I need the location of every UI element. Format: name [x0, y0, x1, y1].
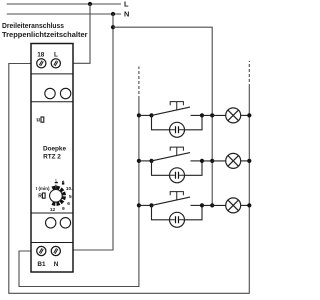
terminal N screw — [51, 246, 60, 255]
svg-text:9: 9 — [62, 206, 65, 212]
svg-text:Treppenlichtzeitschalter: Treppenlichtzeitschalter — [2, 30, 88, 39]
svg-text:N: N — [54, 261, 59, 268]
node dot bus S3 — [137, 203, 141, 207]
terminal B1 screw — [37, 246, 46, 255]
wire S3 to lamp — [202, 204, 226, 206]
wire push-button bus dashed continuation — [138, 67, 140, 100]
svg-text:Doepke: Doepke — [43, 146, 67, 153]
switch S2 blade — [152, 153, 191, 161]
dial knob — [50, 190, 63, 203]
switch S3 fixed contact — [191, 204, 203, 206]
svg-text:5: 5 — [69, 194, 72, 200]
glow lamp E1 — [170, 122, 185, 137]
mounting hole top right — [60, 88, 70, 98]
wire lamp return bus dashed continuation — [248, 61, 250, 87]
node dot S3 branch — [149, 203, 153, 207]
push-button S1 row — [137, 102, 252, 138]
dial time scale wedges — [51, 186, 66, 206]
glow lamp E3 branch — [152, 205, 203, 219]
lamp H2 — [226, 153, 241, 168]
switch S2 actuator — [170, 147, 183, 155]
switch S1 blade — [152, 107, 191, 115]
node dot S2 right — [200, 159, 204, 163]
terminal L screw — [51, 59, 60, 68]
wire H1 to return bus — [241, 114, 250, 116]
svg-text:12: 12 — [50, 207, 56, 213]
glow lamp E1 branch — [152, 115, 203, 129]
switch S3 blade — [152, 197, 191, 205]
svg-text:Dreileiteranschluss: Dreileiteranschluss — [2, 21, 64, 30]
svg-text:L: L — [124, 0, 129, 9]
node dot H1 return — [247, 113, 251, 117]
svg-text:N: N — [124, 10, 129, 19]
mounting hole bottom left — [46, 218, 56, 228]
svg-text:L: L — [54, 51, 58, 58]
node dot H2 return — [247, 159, 251, 163]
svg-text:R: R — [38, 194, 42, 200]
wire N drop to timer N terminal — [60, 14, 113, 250]
wire S3 left — [139, 204, 152, 206]
push-button S3 row — [137, 192, 252, 228]
mounting hole top left — [45, 88, 55, 98]
node junction on L — [88, 2, 92, 6]
node dot S1 branch — [149, 113, 153, 117]
node dot S3 right — [200, 203, 204, 207]
wire N supply line — [7, 13, 121, 15]
wire H3 to return bus — [241, 204, 250, 206]
wire S2 left — [139, 160, 152, 162]
wire S1 left — [139, 114, 152, 116]
dial pointer tick top — [55, 185, 57, 189]
glow lamp E2 branch — [152, 161, 203, 175]
svg-text:10.: 10. — [66, 186, 73, 192]
node dot S1 lamp bus — [210, 113, 214, 117]
wire S1 to lamp — [202, 114, 226, 116]
svg-text:B1: B1 — [37, 261, 46, 268]
node dot bus S2 — [137, 159, 141, 163]
svg-text:18: 18 — [37, 51, 45, 58]
dial top glyph bell — [55, 179, 58, 183]
timer section divider bottom — [31, 242, 73, 244]
lamp H3 — [226, 198, 241, 213]
wire H2 to return bus — [241, 160, 250, 162]
node dot H3 return — [247, 203, 251, 207]
node dot S3 lamp bus — [210, 203, 214, 207]
dial top glyph lock — [62, 181, 64, 185]
switch S1 fixed contact — [191, 114, 203, 116]
node junction on N — [111, 12, 115, 16]
svg-text:RTZ 2: RTZ 2 — [43, 154, 61, 161]
terminal 18 screw — [37, 59, 46, 68]
wire L supply line — [7, 3, 121, 5]
wire from terminal B1 to push-button bus — [19, 99, 139, 287]
timer section divider lower — [31, 212, 73, 214]
glow lamp E3 — [170, 212, 185, 227]
push-button S2 row — [137, 147, 252, 183]
mounting hole bottom right — [60, 218, 70, 228]
wire from L line to timer L terminal — [73, 4, 90, 63]
timer U1 Doepke RTZ 2 body — [31, 44, 73, 273]
switch S3 actuator — [170, 192, 183, 200]
node dot bus S1 — [137, 113, 141, 117]
timer section divider top — [31, 73, 73, 75]
node dot S1 right — [200, 113, 204, 117]
svg-text:t (min): t (min) — [36, 186, 50, 191]
wire N branch to lamp bus — [113, 27, 212, 205]
svg-text:u: u — [36, 118, 40, 124]
timer section divider upper — [31, 101, 73, 103]
glow lamp E2 — [170, 168, 185, 183]
wire from terminal 18 around bottom to lamp return bus — [9, 64, 250, 294]
node dot S2 branch — [149, 159, 153, 163]
node junction N branch — [111, 25, 115, 29]
switch S1 actuator — [170, 102, 183, 110]
svg-text:6: 6 — [67, 201, 70, 207]
lamp H1 — [226, 108, 241, 123]
wire S2 to lamp — [202, 160, 226, 162]
node dot S2 lamp bus — [210, 159, 214, 163]
switch S2 fixed contact — [191, 160, 203, 162]
